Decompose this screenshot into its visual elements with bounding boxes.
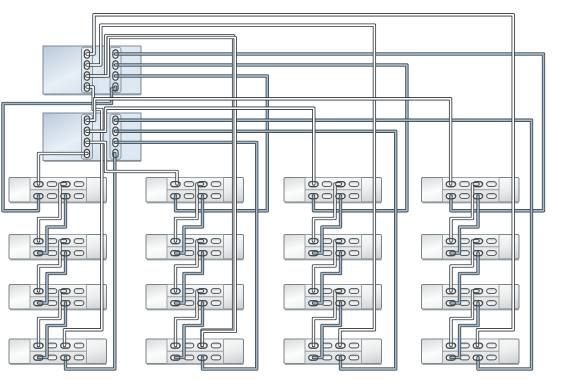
- cable shelf r1c3 IOM-A to shelf r2c3 IOM-A: [314, 184, 341, 241]
- cable C2-S2-P1 to shelf r4c4 IOM-B: [116, 120, 532, 369]
- cable shelf r3c4 IOM-B to shelf r4c4 IOM-B: [451, 303, 478, 358]
- disk shelf row3 col4: [422, 285, 520, 310]
- disk shelf row1 col4: [422, 178, 520, 203]
- cable C1-S2-P3 to shelf r1c2 IOM-B: [116, 76, 268, 211]
- disk shelf row4 col1: [9, 339, 107, 364]
- cable shelf r2c4 IOM-A to shelf r3c4 IOM-A: [451, 241, 478, 291]
- cable C1-S2-P1 to shelf r1c4 IOM-B: [116, 54, 544, 211]
- cable shelf r3c3 IOM-A to shelf r4c3 IOM-A: [314, 291, 341, 346]
- cable shelf r3c4 IOM-A to shelf r4c4 IOM-A: [451, 291, 478, 346]
- cable C2-S2-P4 to shelf r4c1 IOM-B: [66, 154, 115, 370]
- cable shelf r1c2 IOM-B to shelf r2c2 IOM-B: [176, 196, 203, 253]
- cable C2-S1-P3 to shelf r1c2 IOM-A: [87, 142, 177, 184]
- cable shelf r3c3 IOM-B to shelf r4c3 IOM-B: [314, 303, 341, 358]
- cable shelf r2c3 IOM-A to shelf r3c3 IOM-A: [314, 241, 341, 291]
- disk shelf row2 col2: [146, 235, 244, 260]
- cable shelf r2c1 IOM-B to shelf r3c1 IOM-B: [39, 253, 66, 303]
- cable C1-S1-P3 to shelf r4c2 IOM-A: [87, 36, 234, 346]
- controller 1: [43, 46, 141, 95]
- disk shelf row1 col1: [9, 178, 107, 203]
- cable C1-S2-P2 to shelf r1c3 IOM-B: [116, 65, 407, 211]
- cable shelf r2c3 IOM-B to shelf r3c3 IOM-B: [314, 253, 341, 303]
- disk shelf row3 col1: [9, 285, 107, 310]
- disk shelf row2 col4: [422, 235, 520, 260]
- cable shelf r1c4 IOM-A to shelf r2c4 IOM-A: [451, 184, 478, 241]
- cable C2-S1-P1 to shelf r1c4 IOM-A: [87, 99, 451, 184]
- cable shelf r2c1 IOM-A to shelf r3c1 IOM-A: [39, 241, 66, 291]
- cable C1-S1-P2 to shelf r4c3 IOM-A: [87, 25, 374, 345]
- cable shelf r1c2 IOM-A to shelf r2c2 IOM-A: [176, 184, 203, 241]
- cable C1-S2-P4 to shelf r1c1 IOM-B: [3, 87, 116, 211]
- disk shelf row1 col2: [146, 178, 244, 203]
- disk shelf row2 col1: [9, 235, 107, 260]
- cable C2-S1-P4 to shelf r1c1 IOM-A: [39, 154, 88, 185]
- cable C2-S2-P3 to shelf r4c2 IOM-B: [116, 142, 257, 369]
- disk shelf row3 col3: [284, 285, 382, 310]
- cable shelf r2c2 IOM-A to shelf r3c2 IOM-A: [176, 241, 203, 291]
- cable shelf r3c1 IOM-B to shelf r4c1 IOM-B: [39, 303, 66, 358]
- disk shelf row4 col4: [422, 339, 520, 364]
- controller 2: [43, 113, 141, 161]
- connected port rings: [34, 50, 483, 361]
- cable C2-S1-P2 to shelf r1c3 IOM-A: [87, 108, 314, 184]
- cable shelf r1c1 IOM-B to shelf r2c1 IOM-B: [39, 196, 66, 253]
- disk shelf row3 col2: [146, 285, 244, 310]
- cable shelf r1c4 IOM-B to shelf r2c4 IOM-B: [451, 196, 478, 253]
- cable shelf r3c2 IOM-A to shelf r4c2 IOM-A: [176, 291, 203, 346]
- cable C1-S1-P4 to shelf r4c1 IOM-A: [65, 87, 102, 346]
- cable shelf r3c1 IOM-A to shelf r4c1 IOM-A: [39, 291, 66, 346]
- disk shelf row2 col3: [284, 235, 382, 260]
- disk shelf row4 col3: [284, 339, 382, 364]
- cable C1-S1-P3 companion to shelf r4c2 IOM-A: [87, 38, 235, 346]
- disk shelf row1 col3: [284, 178, 382, 203]
- cable shelf r3c2 IOM-B to shelf r4c2 IOM-B: [176, 303, 203, 358]
- cable shelf r2c4 IOM-B to shelf r3c4 IOM-B: [451, 253, 478, 303]
- disk shelf row4 col2: [146, 339, 244, 364]
- cable shelf r1c1 IOM-A to shelf r2c1 IOM-A: [39, 184, 66, 241]
- cable shelf r1c3 IOM-B to shelf r2c3 IOM-B: [314, 196, 341, 253]
- cable C1-S1-P1 to shelf r4c4 IOM-A: [87, 15, 513, 346]
- cable C2-S2-P2 to shelf r4c3 IOM-B: [116, 131, 396, 369]
- cable shelf r2c2 IOM-B to shelf r3c2 IOM-B: [176, 253, 203, 303]
